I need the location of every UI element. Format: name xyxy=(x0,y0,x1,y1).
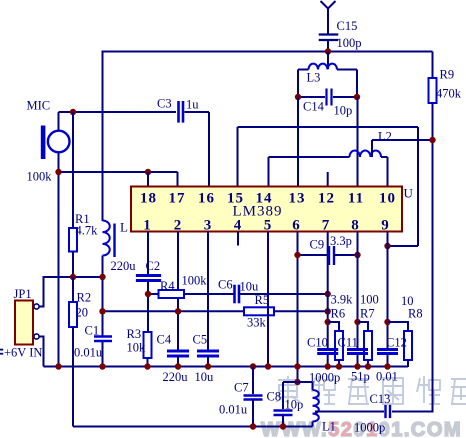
inductor L core xyxy=(113,224,115,258)
svg-text:0.01u: 0.01u xyxy=(74,346,103,360)
svg-text:C4: C4 xyxy=(157,333,172,347)
inductor L2 xyxy=(350,150,382,157)
resistor R8 xyxy=(404,331,412,360)
junction supply rail right xyxy=(99,274,105,280)
junction ground C11 xyxy=(354,363,360,369)
junction R2 top xyxy=(70,274,76,280)
svg-text:2: 2 xyxy=(174,218,183,234)
wire pin 15 to right xyxy=(238,126,419,128)
microphone MIC xyxy=(41,126,70,160)
wire C13 to right rail xyxy=(392,411,433,413)
inductor L3 xyxy=(309,64,338,70)
junction pin 7 R5 xyxy=(325,308,331,314)
resistor R9 xyxy=(429,78,437,103)
wire R7 bottom lead xyxy=(367,360,369,367)
wire R8 bottom lead xyxy=(407,360,409,367)
junction mic bottom xyxy=(55,169,61,175)
resistor R7 xyxy=(364,331,372,360)
JP1 pin 2 circle xyxy=(34,334,39,339)
svg-text:L1: L1 xyxy=(322,420,336,434)
capacitor C11 xyxy=(347,350,368,354)
svg-text:C5: C5 xyxy=(193,333,208,347)
svg-text:20: 20 xyxy=(76,306,89,320)
svg-text:R3: R3 xyxy=(127,327,142,341)
junction pin 9 xyxy=(384,243,390,249)
svg-text:R4: R4 xyxy=(160,279,175,293)
svg-text:17: 17 xyxy=(169,191,186,207)
JP1 pin 1 circle xyxy=(34,304,39,309)
svg-text:C15: C15 xyxy=(337,19,358,33)
junction R8 branch xyxy=(384,319,390,325)
svg-text:12: 12 xyxy=(318,191,335,207)
inductor L xyxy=(103,221,110,256)
wire mic to C3 xyxy=(59,111,177,113)
junction ground left xyxy=(99,363,105,369)
wire tank right lower xyxy=(312,422,314,427)
wire pin 1 to C2 xyxy=(147,232,149,275)
junction ground R7 xyxy=(365,363,371,369)
junction R6 branch xyxy=(325,319,331,325)
wire tank right to pin 11 xyxy=(357,97,359,187)
wire L2 tap to right rail xyxy=(372,139,433,141)
label +6V IN fragment xyxy=(0,349,3,355)
svg-text:1u: 1u xyxy=(186,98,199,112)
junction ground C12 xyxy=(384,363,390,369)
svg-text:10p: 10p xyxy=(334,104,353,118)
junction ground pin6 xyxy=(294,363,300,369)
wire L3 right xyxy=(337,69,357,71)
svg-text:C3: C3 xyxy=(157,97,172,111)
junction C7 bottom xyxy=(250,423,256,429)
wire pin 3 down xyxy=(207,232,209,352)
resistor R1 xyxy=(69,228,77,252)
wire tank top edge xyxy=(283,381,313,383)
junction ground C7 xyxy=(250,363,256,369)
svg-text:4: 4 xyxy=(234,218,243,234)
capacitor C10 xyxy=(317,350,338,354)
wire pin 9 down xyxy=(387,232,389,350)
svg-text:5: 5 xyxy=(264,218,273,234)
svg-text:C6: C6 xyxy=(218,278,233,292)
svg-text:C1: C1 xyxy=(85,324,100,338)
wire down right of IC xyxy=(417,127,419,246)
capacitor C12 xyxy=(377,350,398,354)
svg-text:L3: L3 xyxy=(307,71,321,85)
junction R7 branch xyxy=(354,319,360,325)
wire C15 to top rail xyxy=(327,40,329,52)
svg-text:0.01: 0.01 xyxy=(376,370,398,384)
svg-text:3: 3 xyxy=(204,218,213,234)
svg-text:8: 8 xyxy=(351,218,360,234)
wire tank right upper xyxy=(312,382,314,390)
capacitor C4 220u xyxy=(167,351,189,356)
wire R3 to ground rail xyxy=(147,358,149,367)
junction pin 6 C9 xyxy=(294,252,300,258)
svg-text:R9: R9 xyxy=(440,68,455,82)
wire L2 right xyxy=(381,156,388,158)
wire R1 top lead xyxy=(72,112,74,228)
wire left vertical to ground rail xyxy=(102,342,104,368)
wire JP1 plus to supply rail xyxy=(39,277,102,307)
wire pin 14 up xyxy=(268,157,270,187)
wire R4 row left xyxy=(148,293,234,295)
junction tank left xyxy=(295,94,301,100)
wire left vertical upper xyxy=(102,52,104,222)
wire tank left to pin 13 xyxy=(297,97,299,187)
svg-text:3.3p: 3.3p xyxy=(330,234,352,248)
wire C9 right xyxy=(334,254,358,256)
junction ground R3 xyxy=(144,363,150,369)
svg-text:51p: 51p xyxy=(351,370,370,384)
wire pin 9 to ground xyxy=(387,354,389,368)
capacitor C1 xyxy=(94,337,112,342)
svg-text:10: 10 xyxy=(379,191,396,207)
wire L2 tap up xyxy=(371,140,373,157)
junction ground C10 xyxy=(325,363,331,369)
wire pin 5 over R5 xyxy=(267,305,269,320)
wire pin 8 down xyxy=(357,232,359,350)
wire JP1 minus to ground rail xyxy=(39,337,43,367)
wire R2 top xyxy=(72,277,74,302)
capacitor C8 xyxy=(274,411,293,416)
resistor R5 xyxy=(244,307,274,315)
junction tank top xyxy=(294,379,300,385)
wire C6 to pin 7 xyxy=(239,293,328,295)
wire mic bottom lead xyxy=(58,153,60,173)
svg-text:100p: 100p xyxy=(337,36,362,50)
inductor L1 xyxy=(313,390,319,422)
svg-text:13: 13 xyxy=(289,191,306,207)
wire L3 left xyxy=(298,69,309,71)
junction ground C4 xyxy=(175,363,181,369)
svg-text:C8: C8 xyxy=(267,390,282,404)
junction tank right xyxy=(354,94,360,100)
resistor R4 xyxy=(159,290,185,298)
wire R7 top lead xyxy=(358,322,369,331)
junction antenna node xyxy=(325,48,331,54)
wire pin 17 stub xyxy=(177,172,179,187)
op-amp IC U1 LM389 xyxy=(131,187,402,232)
wire pin 12 stub xyxy=(327,172,329,187)
wire pin 5 down xyxy=(267,232,269,368)
svg-text:10k: 10k xyxy=(127,341,147,355)
svg-text:LM389: LM389 xyxy=(233,204,283,220)
wire pin 2 down xyxy=(177,232,179,352)
wire C7 bottom lead xyxy=(252,400,254,427)
junction ground R6 xyxy=(336,363,342,369)
svg-text:C7: C7 xyxy=(234,381,249,395)
svg-text:1000p: 1000p xyxy=(309,371,340,385)
wire bottom rail xyxy=(73,426,313,428)
junction pin 7 C6 xyxy=(325,291,331,297)
svg-text:4.7k: 4.7k xyxy=(76,224,99,238)
svg-text:1000p: 1000p xyxy=(354,421,385,435)
svg-text:11: 11 xyxy=(348,191,364,207)
junction mic R1 xyxy=(70,109,76,115)
wire L1 tap to C13 xyxy=(315,411,384,413)
wire C9 left xyxy=(298,254,330,256)
svg-text:C10: C10 xyxy=(307,336,328,350)
wire tank left lower xyxy=(282,415,284,427)
svg-text:L2: L2 xyxy=(378,130,392,144)
svg-text:R2: R2 xyxy=(77,291,92,305)
antenna xyxy=(321,1,336,34)
wire mic vertical to ground xyxy=(58,172,60,367)
wire pin 7 down xyxy=(327,232,329,350)
junction ground pin5 xyxy=(265,363,271,369)
wire R6 top lead xyxy=(328,322,339,331)
wire R2 to bottom rail xyxy=(72,327,74,427)
capacitor C5 10u xyxy=(197,351,219,356)
svg-text:C11: C11 xyxy=(338,336,358,350)
wire C4 to ground xyxy=(177,356,179,367)
junction pin 2 C4 xyxy=(175,308,181,314)
capacitor C6 xyxy=(235,285,240,304)
svg-text:6: 6 xyxy=(292,218,301,234)
svg-text:3.9k: 3.9k xyxy=(331,293,354,307)
svg-text:+6V IN: +6V IN xyxy=(4,346,42,360)
wire pin 14 to L2 xyxy=(269,156,350,158)
svg-text:18: 18 xyxy=(140,191,157,207)
svg-text:220u: 220u xyxy=(163,370,189,384)
resistor R3 xyxy=(144,332,152,358)
svg-text:R7: R7 xyxy=(360,307,375,321)
junction pin 1 R4 xyxy=(145,291,151,297)
svg-text:0.01u: 0.01u xyxy=(219,403,248,417)
wire pin 15 up xyxy=(237,127,239,187)
svg-text:C13: C13 xyxy=(370,392,391,406)
resistor R6 xyxy=(335,331,343,360)
svg-text:R5: R5 xyxy=(255,293,270,307)
wire pin 6 down xyxy=(297,232,299,368)
wire C14 left xyxy=(298,96,325,98)
wire pin 4 stub xyxy=(237,232,239,246)
wire pin 7 to ground xyxy=(327,354,329,368)
capacitor C2 220u xyxy=(136,276,161,281)
wire mic top lead xyxy=(58,112,60,131)
svg-text:220u: 220u xyxy=(111,259,137,273)
svg-text:100k: 100k xyxy=(27,170,53,184)
wire tank right side xyxy=(356,70,358,98)
wire ground rail xyxy=(44,366,409,368)
svg-text:10u: 10u xyxy=(195,370,215,384)
wire down to pin 16 xyxy=(208,112,210,187)
svg-text:L: L xyxy=(120,220,128,235)
wire left vertical mid xyxy=(102,256,104,337)
capacitor C3 xyxy=(179,101,184,123)
watermark chinese characters xyxy=(276,376,300,404)
svg-text:JP1: JP1 xyxy=(14,287,32,301)
svg-text:C14: C14 xyxy=(303,100,325,114)
connector JP1 xyxy=(15,301,33,345)
svg-text:C12: C12 xyxy=(386,336,407,350)
junction ground mic xyxy=(55,363,61,369)
wire C14 right xyxy=(333,96,357,98)
capacitor C14 xyxy=(327,89,332,106)
wire tank left side xyxy=(297,70,299,98)
svg-text:R6: R6 xyxy=(331,307,346,321)
wire pin 18 stub xyxy=(147,172,149,187)
svg-text:470k: 470k xyxy=(436,87,462,101)
svg-text:R8: R8 xyxy=(408,307,423,321)
svg-text:10u: 10u xyxy=(240,280,260,294)
svg-text:C2: C2 xyxy=(146,259,161,273)
svg-text:16: 16 xyxy=(198,191,215,207)
wire R6 bottom lead xyxy=(338,360,340,367)
wire R1 to R2 xyxy=(72,252,74,303)
svg-text:MIC: MIC xyxy=(27,99,51,113)
svg-text:100: 100 xyxy=(360,293,379,307)
wire C3 to corner xyxy=(185,111,210,113)
wire top rail xyxy=(102,51,433,53)
wire mic bottom to pin 17 xyxy=(59,171,178,173)
capacitor C7 xyxy=(244,396,263,400)
junction ground C5 xyxy=(205,363,211,369)
resistor R2 xyxy=(69,302,77,327)
wire right vertical to R9 xyxy=(432,52,434,79)
svg-text:100k: 100k xyxy=(182,274,208,288)
wire R5 row xyxy=(103,310,328,312)
junction L2 tap xyxy=(429,137,435,143)
junction pin 18 branch xyxy=(145,169,151,175)
wire R8 top lead xyxy=(388,322,409,331)
junction pin 8 C9 xyxy=(354,252,360,258)
svg-text:1: 1 xyxy=(143,218,152,234)
svg-text:9: 9 xyxy=(381,218,390,234)
svg-text:10p: 10p xyxy=(285,398,304,412)
wire C2 to R3 xyxy=(147,281,149,332)
capacitor C15 xyxy=(319,35,339,41)
svg-text:C9: C9 xyxy=(310,238,325,252)
capacitor C13 xyxy=(386,405,391,418)
svg-text:33k: 33k xyxy=(247,316,267,330)
wire right vertical below R9 xyxy=(432,103,434,413)
wire pin 6 to tank xyxy=(297,367,299,382)
wire tank left upper xyxy=(282,382,284,409)
wire C5 to ground xyxy=(207,356,209,367)
capacitor C9 xyxy=(329,246,334,265)
junction R5 row left xyxy=(99,308,105,314)
svg-text:7: 7 xyxy=(322,218,331,234)
junction tank bottom xyxy=(280,423,286,429)
svg-text:U: U xyxy=(404,186,414,201)
wire C7 top lead xyxy=(252,367,254,395)
wire L3 tap xyxy=(327,52,329,70)
wire to pin 9 node xyxy=(388,245,419,247)
wire L2 to pin 10 xyxy=(387,157,389,187)
wire pin 8 to ground xyxy=(357,354,359,368)
